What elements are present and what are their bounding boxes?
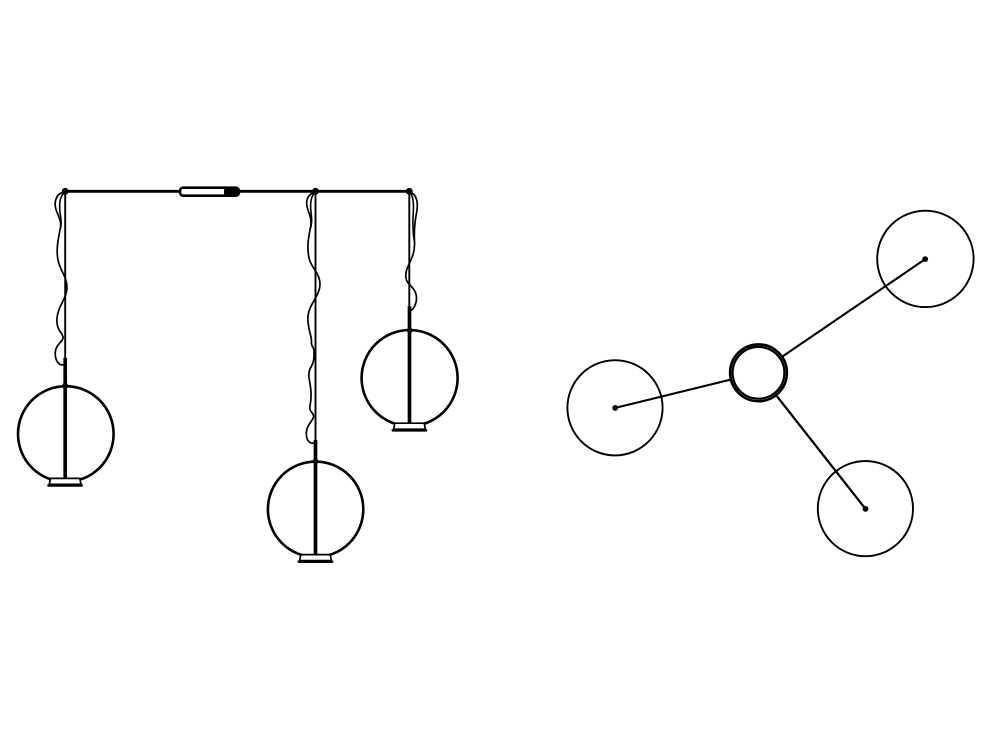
middle globe	[268, 462, 363, 557]
right stem	[408, 306, 412, 424]
right cable top loop	[410, 192, 415, 242]
junction dot right	[406, 188, 413, 195]
left globe	[18, 386, 114, 482]
canopy ring outer	[730, 344, 787, 401]
arm to left globe	[615, 380, 730, 408]
left cable	[55, 192, 67, 365]
canopy ring inner	[733, 347, 785, 399]
left base	[49, 478, 81, 484]
middle base bottom lip	[299, 560, 332, 563]
arm to top-right globe	[783, 259, 925, 356]
left stem	[63, 358, 67, 479]
right cable	[406, 192, 418, 311]
support bar	[64, 190, 411, 193]
top-view globe left center dot	[612, 405, 618, 411]
middle base	[300, 555, 332, 561]
left globe top dot	[62, 383, 68, 389]
top-view globe top-right	[877, 211, 973, 307]
right base	[394, 423, 426, 429]
top-view globe bottom-right center dot	[863, 506, 869, 512]
left cable top loop	[60, 192, 65, 230]
right globe	[362, 330, 458, 426]
middle cable	[306, 192, 320, 443]
top-view globe left	[567, 360, 662, 455]
middle rod	[315, 191, 317, 447]
middle stem	[314, 440, 318, 556]
ceiling mount body	[180, 187, 239, 196]
right rod	[408, 191, 410, 315]
top-view globe bottom-right	[818, 461, 913, 556]
junction dot middle	[312, 188, 319, 195]
arm to bottom-right globe	[777, 396, 866, 509]
top-view globe top-right center dot	[922, 256, 928, 262]
junction dot left	[62, 188, 69, 195]
right base bottom lip	[393, 429, 426, 432]
middle cable top loop	[310, 192, 315, 230]
right globe top dot	[407, 327, 413, 333]
left rod	[64, 191, 66, 365]
middle globe top dot	[313, 458, 319, 464]
left base bottom lip	[49, 484, 82, 487]
